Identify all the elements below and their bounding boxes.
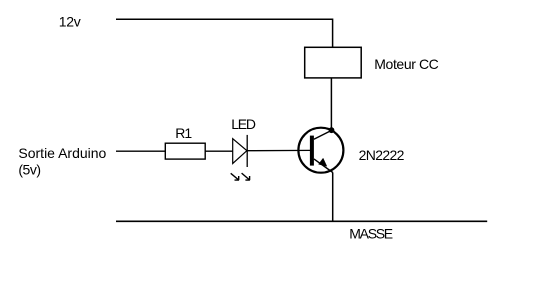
node collector junction dot (329, 127, 335, 133)
svg-text:MASSE: MASSE (349, 225, 392, 241)
wire from Sortie Arduino to R1 (116, 150, 165, 152)
diode LED cathode bar (246, 135, 248, 167)
transistor base bar (310, 136, 314, 166)
transistor collector diagonal (314, 130, 332, 139)
LED light arrow 2 (242, 173, 250, 180)
wire top rail from 12v to motor (116, 19, 333, 47)
diode LED triangle (233, 139, 247, 164)
svg-text:R1: R1 (175, 125, 192, 141)
motor M1 box (305, 47, 362, 78)
transistor emitter arrowhead (319, 158, 327, 166)
wire R1 to LED anode (205, 150, 232, 152)
wire LED cathode to transistor base (248, 149, 311, 151)
svg-text:LED: LED (231, 116, 256, 132)
resistor R1 (165, 143, 205, 159)
svg-text:Moteur CC: Moteur CC (374, 56, 438, 72)
wire motor bottom to collector junction (330, 78, 332, 130)
svg-text:Sortie Arduino: Sortie Arduino (18, 145, 106, 161)
transistor emitter diagonal (314, 159, 333, 173)
transistor Q1 circle (298, 128, 343, 173)
svg-text:(5v): (5v) (18, 161, 40, 177)
LED light arrow 1 (231, 173, 239, 180)
svg-text:12v: 12v (59, 13, 81, 29)
svg-text:2N2222: 2N2222 (359, 147, 405, 163)
wire emitter to ground rail (332, 172, 334, 221)
wire ground rail MASSE (116, 220, 487, 222)
